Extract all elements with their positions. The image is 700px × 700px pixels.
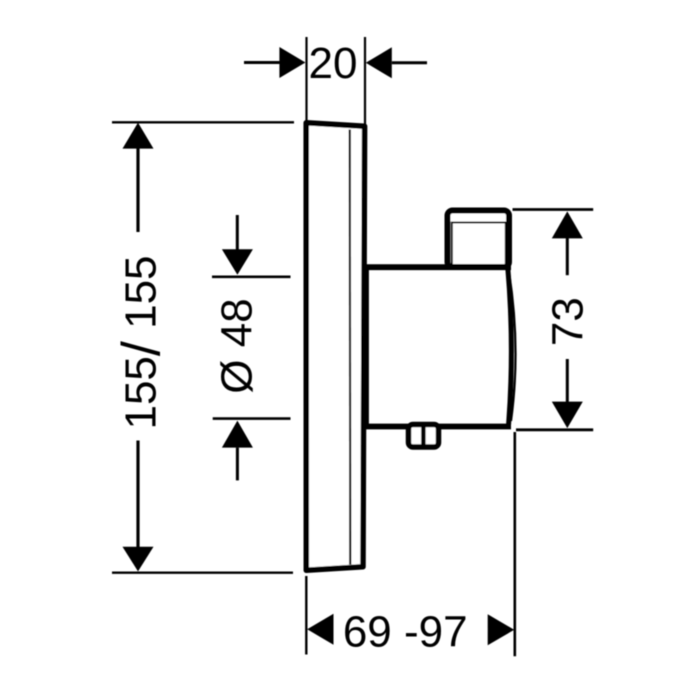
- svg-text:20: 20: [309, 39, 358, 88]
- svg-text:69 -97: 69 -97: [343, 608, 468, 657]
- svg-text:155/ 155: 155/ 155: [112, 255, 172, 429]
- svg-text:73: 73: [544, 297, 593, 346]
- svg-text:Ø 48: Ø 48: [213, 298, 262, 393]
